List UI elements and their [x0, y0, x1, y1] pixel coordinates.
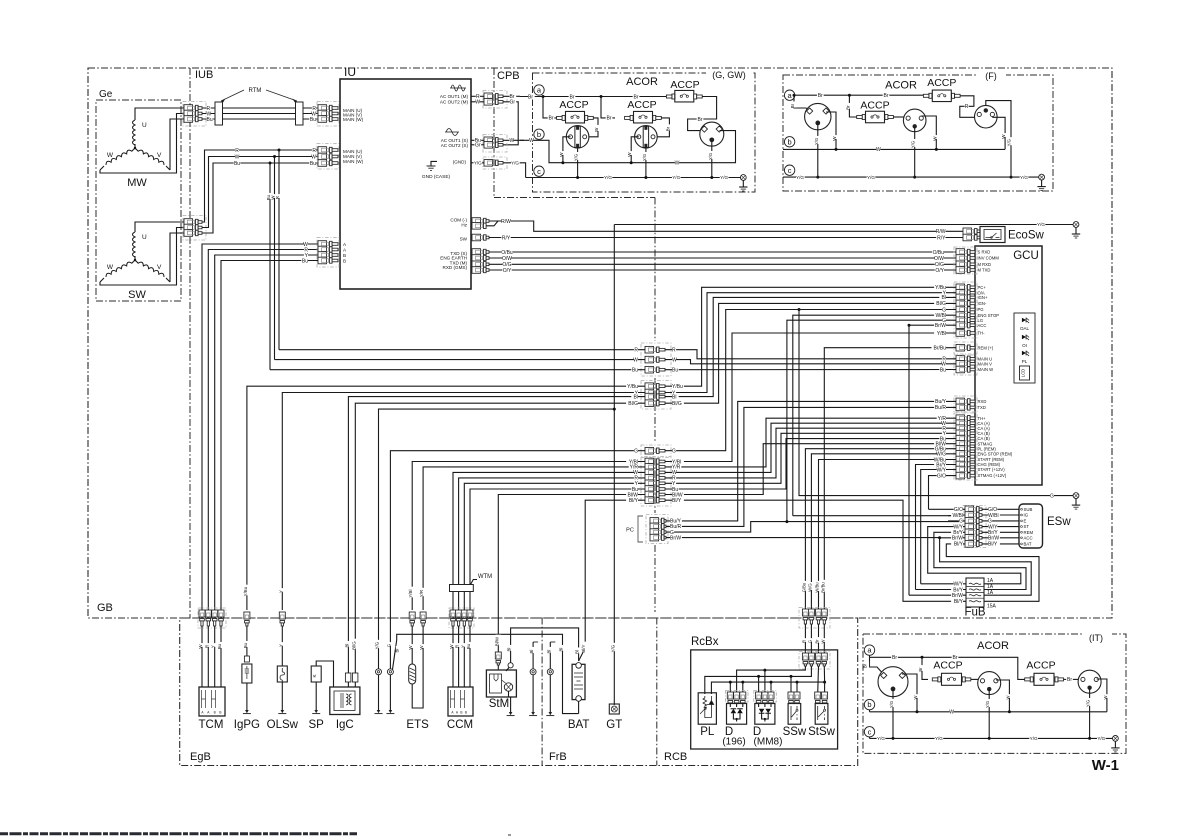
svg-text:Y/Bl: Y/Bl [408, 590, 413, 598]
svg-text:Bu: Bu [672, 368, 678, 374]
svg-text:b: b [867, 700, 871, 709]
pilot lamp PL box [698, 693, 716, 724]
connector SW to IUB [183, 216, 206, 241]
wire SW-V to connector [170, 233, 184, 282]
oil level switch OLSw [281, 626, 283, 666]
receptacle F3 [975, 105, 998, 128]
wire Bu/R TXD to PC [666, 407, 956, 526]
wire Br drop to ACCP1 [543, 97, 557, 118]
wire YG drop receptacle1 [577, 148, 579, 178]
svg-text:Br: Br [528, 94, 533, 100]
ring terminal frame ground 1 [532, 642, 534, 669]
wire Bl/W row to GCU STMAG [665, 444, 956, 495]
wire Y/R row to ETS [423, 467, 645, 610]
generator sub winding SW [133, 232, 136, 257]
ground G GW panel [740, 175, 746, 181]
wire O/Y RXD-GMS to GCU [472, 267, 481, 274]
svg-text:W: W [235, 154, 240, 160]
svg-text:IGN+: IGN+ [978, 295, 988, 300]
wire YG c-row F [783, 176, 1039, 178]
connector MW trio to IU [317, 102, 339, 127]
svg-text:ACCP: ACCP [670, 79, 699, 91]
wire Bl/W row to StM [498, 495, 645, 653]
svg-text:Y/R: Y/R [419, 590, 424, 597]
indicator lamp OAL [1022, 318, 1026, 322]
svg-text:ACCP: ACCP [860, 100, 889, 112]
ground top right [1073, 222, 1079, 228]
wire ACCP F2 to receptacle F3 [960, 96, 976, 118]
wire SW W to IU [202, 157, 318, 228]
wire W drop F1 [826, 112, 836, 149]
wire BAT minus [578, 701, 580, 713]
connector RCB boundary [799, 608, 830, 629]
svg-text:O/W: O/W [934, 256, 944, 262]
ferrite clamp RTM 2 [296, 102, 304, 125]
svg-text:Br: Br [1067, 677, 1072, 683]
generator main winding MW [133, 120, 136, 145]
svg-text:Br: Br [863, 663, 868, 668]
receptacle ACOR 1 [566, 126, 589, 149]
svg-text:Bl: Bl [559, 648, 564, 652]
svg-text:Bl: Bl [575, 650, 580, 654]
svg-text:G: G [634, 449, 638, 455]
svg-text:ACCP: ACCP [927, 77, 956, 89]
CPB boundary line [493, 68, 495, 198]
svg-text:B: B [343, 258, 346, 263]
dash box F panel [783, 75, 1053, 191]
svg-text:GB: GB [97, 602, 113, 614]
receptacle IT1 [878, 667, 908, 697]
svg-text:SW: SW [460, 236, 468, 241]
svg-text:c: c [537, 167, 541, 176]
svg-text:c: c [868, 727, 872, 736]
svg-text:R: R [672, 348, 676, 354]
svg-text:W: W [633, 357, 638, 363]
svg-text:B: B [343, 253, 346, 258]
connector AC OUT S pair [483, 135, 507, 153]
wire YG ground-bus top right [614, 224, 1073, 226]
wire R row to CCM [459, 478, 645, 610]
wire W to StSw [823, 666, 825, 694]
wire Bu to GCU MAIN W [665, 369, 956, 371]
svg-text:Y/G: Y/G [610, 644, 615, 652]
diode block D196 [726, 691, 749, 703]
middle column connectors [641, 343, 671, 376]
svg-text:Y/G: Y/G [814, 138, 819, 145]
svg-text:PG: PG [978, 307, 984, 312]
svg-text:(IT): (IT) [1089, 633, 1103, 643]
connector IU AABB [317, 238, 339, 268]
svg-text:Y: Y [278, 644, 283, 647]
connector OLSw [279, 612, 285, 619]
svg-text:Y/Bu: Y/Bu [243, 586, 248, 596]
svg-text:Br/W: Br/W [988, 536, 999, 542]
svg-text:EcoSw: EcoSw [1008, 230, 1044, 242]
svg-text:W/G: W/G [807, 583, 812, 591]
svg-text:OLSw: OLSw [267, 719, 299, 731]
node c IT [864, 727, 874, 737]
wire F3 top dot to YG [986, 101, 1011, 178]
svg-text:Y/G: Y/G [708, 153, 713, 160]
wire Br a-row IT [869, 655, 871, 657]
Ge generator dash box [96, 100, 181, 301]
wire YG drop IT3 [1089, 688, 1091, 738]
wire YG drop receptacle3 [711, 141, 713, 178]
FrB boundary line [541, 618, 543, 766]
svg-text:IgPG: IgPG [234, 719, 260, 731]
svg-text:WTM: WTM [478, 574, 492, 580]
wire YG c-row bus [526, 177, 741, 179]
svg-text:Bu: Bu [243, 642, 248, 648]
svg-text:W: W [876, 147, 881, 153]
svg-text:ACOR: ACOR [977, 640, 1009, 652]
LCD display [1020, 366, 1030, 380]
branch wire W down to GCU main [274, 157, 276, 360]
svg-text:W: W [559, 152, 564, 157]
wire Y/Bu to GCU PC+ [665, 287, 956, 386]
wire Bl/G row to IgC [355, 403, 645, 673]
svg-text:Y/G: Y/G [1006, 139, 1011, 146]
wire Br drop to receptacle F1 [794, 95, 809, 110]
svg-text:Bl: Bl [634, 394, 638, 400]
svg-text:Bu: Bu [302, 258, 308, 264]
wire YG drop F2 [914, 127, 916, 177]
svg-text:M RXD: M RXD [978, 262, 992, 267]
svg-text:Y/G: Y/G [867, 175, 875, 180]
wire Br/Y fuse loop to ESw REM [934, 532, 1026, 589]
receptacle IT2 [978, 672, 1001, 695]
svg-text:Bl: Bl [546, 650, 551, 654]
svg-text:R: R [235, 148, 239, 154]
svg-text:Gr: Gr [475, 143, 481, 149]
wire G row to ring terminal [390, 451, 645, 669]
engine block EgB/FrB/RCB boundary [180, 618, 858, 766]
svg-text:PL: PL [1022, 359, 1028, 364]
node b [534, 129, 544, 139]
wire Br drop to ACCP2 [601, 97, 615, 118]
wire W/Bl ENG STOP from GCU to ESw [793, 315, 956, 516]
wire W drop IT3 [1097, 679, 1107, 712]
ESw rows and connectors [963, 506, 986, 548]
svg-text:G: G [672, 449, 676, 455]
wire Br/W ACC from GCU down to FuB [909, 324, 956, 326]
start switch StSw [815, 692, 821, 699]
diode block DMM8 [754, 691, 777, 703]
svg-text:Bl: Bl [529, 650, 534, 654]
svg-text:Bu: Bu [632, 368, 638, 374]
svg-text:15A: 15A [987, 604, 997, 610]
wire Br/Bu REM to RcBx [824, 348, 956, 611]
svg-text:V: V [157, 264, 162, 271]
svg-text:Br: Br [790, 103, 795, 108]
svg-text:Bu: Bu [234, 161, 240, 167]
svg-text:Br: Br [953, 655, 958, 661]
svg-text:W: W [107, 264, 114, 271]
wire Br drop to receptacle IT1 [870, 657, 882, 672]
wire O/Bu TXD-S to GCU [472, 249, 481, 256]
wire O/G TXD-M to GCU [472, 261, 481, 268]
svg-text:U: U [142, 234, 147, 241]
svg-text:TH-: TH- [978, 331, 986, 336]
svg-text:W/Bu: W/Bu [815, 582, 820, 593]
ground IT panel [1113, 736, 1119, 742]
svg-text:Br/W: Br/W [952, 593, 963, 599]
wire Br drop to ACCP IT1 [922, 657, 928, 679]
middle connector column boundary [654, 198, 656, 342]
svg-text:ACCP: ACCP [933, 660, 962, 672]
wire MW-W to connector [100, 114, 184, 174]
TCM box [199, 687, 225, 716]
svg-text:IGN-: IGN- [978, 301, 987, 306]
svg-text:Br: Br [918, 667, 923, 672]
wire FuB WY left [921, 583, 966, 585]
svg-text:BAT: BAT [1024, 542, 1032, 547]
wire Bl StM to BAT plus [508, 663, 513, 668]
wire R from IU-A to TCM [208, 250, 318, 611]
svg-text:Ge: Ge [99, 89, 113, 100]
connector YG ground [483, 157, 507, 169]
wire SW-U to connector [135, 222, 184, 232]
svg-text:CPB: CPB [497, 70, 520, 82]
wire SW Bu to IU [202, 163, 318, 233]
wire Bl/G to GCU IGN- [665, 303, 956, 403]
svg-text:ST: ST [1024, 524, 1030, 529]
svg-text:R/Y: R/Y [937, 235, 946, 241]
wire ACCP IT1 to receptacle IT2 [971, 678, 980, 680]
svg-text:W: W [510, 138, 515, 144]
wire ESw WBl row left [948, 514, 965, 517]
svg-text:TCM: TCM [199, 719, 224, 731]
svg-text:GCU: GCU [1013, 250, 1039, 262]
wire ACCP2 to receptacle2 [657, 118, 669, 137]
svg-text:IUB: IUB [195, 69, 213, 81]
dash box IT panel [863, 634, 1126, 753]
svg-text:W: W [1001, 134, 1006, 139]
svg-text:Y/G: Y/G [511, 160, 519, 165]
wire R row left [279, 349, 645, 351]
indicator lamp PL [1022, 351, 1026, 355]
wire Bl/Y row to BAT [579, 500, 645, 661]
svg-text:W: W [475, 100, 480, 106]
node b F [784, 137, 794, 147]
svg-text:W: W [913, 695, 918, 699]
wire W drop F2 [921, 116, 936, 149]
svg-text:AC OUT2 (M): AC OUT2 (M) [440, 100, 469, 105]
svg-text:Y/G: Y/G [985, 701, 990, 708]
svg-text:W: W [1005, 695, 1010, 699]
svg-text:S RXD: S RXD [978, 250, 991, 255]
svg-text:SW: SW [128, 289, 146, 301]
ferrite clamp RTM 1 [215, 102, 223, 125]
svg-text:START (+12V): START (+12V) [978, 467, 1006, 472]
wire W/Y fuse loop to ESw ST [928, 527, 1021, 584]
wire Bu main [202, 118, 318, 120]
svg-text:G/Bu: G/Bu [801, 582, 806, 592]
svg-text:Bl: Bl [507, 648, 512, 652]
svg-text:ESw: ESw [1047, 516, 1071, 528]
svg-text:Y/G: Y/G [1097, 736, 1105, 741]
svg-text:Y/Bl: Y/Bl [937, 331, 946, 337]
svg-text:Bl/Y: Bl/Y [581, 644, 586, 652]
wire W b-row F [783, 148, 1005, 150]
receptacle IT3 [1078, 670, 1101, 693]
svg-text:Bu: Bu [310, 117, 316, 123]
wire YG drop IT1 [892, 689, 894, 738]
inner boundary to control area [494, 197, 655, 199]
svg-text:Hz: Hz [461, 222, 467, 227]
spark plug SP [316, 661, 333, 687]
svg-text:STMAG (+12V): STMAG (+12V) [978, 473, 1007, 478]
relay control box RcBx [691, 650, 838, 749]
svg-text:ACCP: ACCP [1026, 660, 1055, 672]
connector SW trio to IU [317, 144, 339, 170]
svg-text:R: R [455, 645, 460, 648]
svg-text:Br: Br [892, 655, 897, 661]
svg-text:W-1: W-1 [1092, 757, 1119, 774]
wire ESw GO row left [929, 508, 966, 510]
wire Y to GCU O/A [665, 293, 956, 393]
dash box G GW panel [533, 73, 756, 192]
GCU indicator sub-box [1014, 313, 1035, 383]
node b IT [864, 699, 874, 709]
RCB boundary line [656, 618, 658, 766]
svg-text:B: B [219, 711, 221, 715]
wire Y row to GCU CA B [665, 433, 956, 483]
inverter unit IU box [340, 79, 471, 289]
svg-text:FuB: FuB [964, 607, 985, 619]
wire W b-row IT [869, 710, 871, 712]
svg-text:O/Y: O/Y [935, 268, 944, 274]
wire Bu from IU-B to TCM [221, 261, 318, 611]
EcoSw connectors [963, 228, 972, 235]
node c F [784, 165, 794, 175]
wire W/G ENG STOP REM to RcBx [811, 454, 956, 611]
svg-text:ACOR: ACOR [626, 76, 658, 88]
svg-text:R: R [965, 104, 969, 110]
node a F [784, 90, 794, 100]
wire color code labels overlay [207, 105, 211, 111]
svg-text:Bl: Bl [344, 644, 349, 648]
wire YG trunk vertical to GT [613, 225, 615, 706]
svg-text:O/Y: O/Y [503, 268, 512, 274]
svg-text:K: K [312, 674, 317, 677]
wire Br/W fuse loop to ESw ACC [940, 538, 1032, 595]
svg-text:Bl/G: Bl/G [936, 301, 946, 307]
wire Br a-row F [795, 94, 926, 96]
svg-text:RTM: RTM [249, 88, 262, 94]
svg-text:(GND): (GND) [453, 159, 467, 164]
svg-text:B: B [214, 711, 216, 715]
svg-text:W: W [107, 152, 114, 159]
svg-text:Bu: Bu [310, 161, 316, 167]
water temp clamp WTM [450, 585, 474, 592]
branch wire R down to GCU main [278, 150, 280, 350]
svg-text:G: G [807, 640, 812, 643]
wire ACCP IT2 to receptacle IT3 [1064, 678, 1080, 680]
ring terminal G engine ground [387, 669, 393, 675]
svg-text:AC OUT1 (M): AC OUT1 (M) [440, 94, 469, 99]
node c [534, 166, 544, 176]
wire G/O STMAG 12V to ESw [929, 476, 957, 510]
wire Br drop to ACCP F1 [849, 95, 857, 117]
connector RcBx top [799, 652, 830, 670]
connector IgPG [244, 612, 250, 619]
rotated pin labels R G Br W [804, 624, 806, 653]
IUB boundary line [189, 68, 191, 618]
svg-text:Br: Br [594, 127, 599, 132]
svg-text:ACCP: ACCP [627, 99, 656, 111]
svg-text:REM (+): REM (+) [978, 345, 994, 350]
svg-text:Bl/G: Bl/G [351, 641, 356, 650]
svg-text:Br: Br [884, 93, 889, 99]
wire Bl to GCU IGN+ [665, 297, 956, 396]
wire W main [202, 113, 318, 115]
wire W drop IT1 [902, 674, 917, 712]
wire ACCP1 to receptacle1 [589, 118, 598, 137]
svg-text:b: b [788, 137, 792, 146]
svg-text:INV COMM: INV COMM [978, 256, 1000, 261]
svg-text:Y/G: Y/G [1020, 175, 1028, 180]
svg-text:(196): (196) [722, 737, 745, 748]
svg-text:Bl: Bl [395, 649, 400, 653]
svg-text:Y/G: Y/G [642, 154, 647, 161]
svg-text:ACC: ACC [978, 323, 987, 328]
svg-text:(F): (F) [985, 71, 997, 81]
sine symbol AC sub [446, 129, 458, 136]
svg-text:Y/G: Y/G [720, 175, 728, 180]
svg-text:StM: StM [489, 698, 509, 710]
svg-text:MAIN (W): MAIN (W) [343, 159, 364, 164]
wire Br/Y CHG REM to FuB [916, 465, 957, 590]
svg-text:B: B [460, 711, 462, 715]
svg-text:RCB: RCB [664, 751, 687, 763]
svg-text:IgC: IgC [336, 719, 354, 731]
wire YG branch to EgB ring [379, 409, 615, 669]
wire YG drop F1 [817, 123, 819, 177]
svg-text:Y/G: Y/G [574, 154, 579, 161]
wire ACCP F1 to receptacle F2 [893, 116, 906, 118]
wire W row left [275, 359, 646, 361]
svg-text:Y/G: Y/G [1037, 222, 1045, 227]
wire Br/W PC row to ESw junction [666, 537, 940, 539]
svg-text:Bl/Y: Bl/Y [672, 498, 682, 504]
svg-text:REM: REM [1024, 530, 1034, 535]
wire Br to StSw [817, 666, 820, 694]
wire R main [202, 107, 318, 109]
outer block boundary GB/IUB/CPB [88, 68, 1112, 618]
svg-text:Br: Br [549, 116, 554, 122]
wire Y row to OLSw [282, 393, 645, 611]
wire W drop receptacle2 [631, 137, 639, 163]
sub switch SSw [788, 692, 794, 699]
wire ESw G row left [948, 520, 965, 522]
wire Y/R row to GCU TH+ [665, 418, 956, 467]
wire rail R to diode commons [737, 666, 806, 694]
svg-text:R/W: R/W [501, 219, 511, 225]
receptacle ACOR 2 [635, 126, 658, 149]
svg-text:MAIN W: MAIN W [978, 367, 994, 372]
svg-text:W/Y: W/Y [937, 467, 947, 473]
svg-text:R: R [634, 348, 638, 354]
svg-text:U: U [142, 122, 147, 129]
svg-text:(G, GW): (G, GW) [712, 70, 746, 80]
svg-text:Br/Bu: Br/Bu [933, 346, 946, 352]
svg-text:ACOR: ACOR [885, 80, 917, 92]
svg-text:GT: GT [606, 719, 622, 731]
svg-text:SSw: SSw [783, 726, 807, 738]
svg-text:ACC: ACC [1024, 535, 1033, 540]
branch wire Bu down to GCU main [269, 163, 271, 370]
